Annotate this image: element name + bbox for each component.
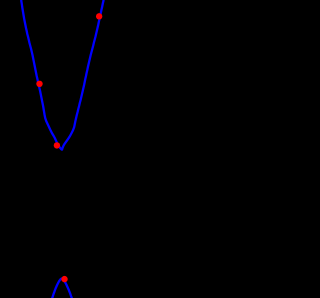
point D (red dot at lower cusp vertex) (61, 276, 67, 282)
point A (red dot on upper-right branch) (96, 13, 102, 19)
point C (red dot beside upper cusp vertex) (54, 142, 60, 148)
curve: upper cusp branch (blue, opens upward, vertex ~(62,149)) (21, 0, 103, 150)
point B (red dot on upper-left branch) (36, 81, 42, 87)
curve: lower cusp branch (blue, opens downward, vertex ~(62,278)) (52, 278, 72, 298)
